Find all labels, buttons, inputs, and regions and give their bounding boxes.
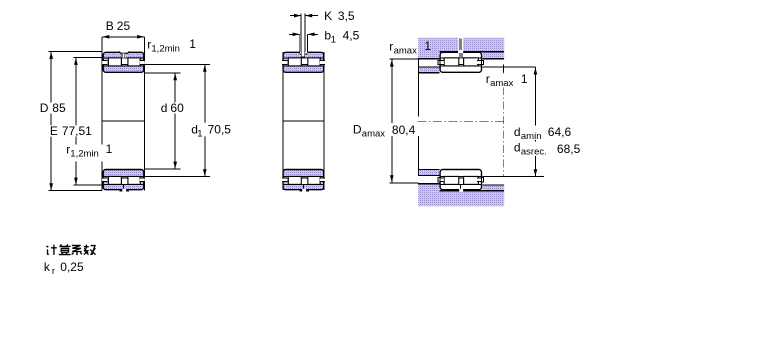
housing shoulder line bottom-left [418, 183, 439, 185]
bottom oil hole mark [122, 185, 125, 190]
bottom groove notch [120, 189, 129, 191]
svg-text:d: d [161, 101, 168, 115]
oil hole marks [121, 53, 125, 57]
svg-text:r: r [389, 40, 393, 54]
roller top-right [308, 58, 320, 66]
bearing face tabs [438, 60, 440, 64]
svg-text:1: 1 [197, 128, 202, 139]
dimension E 77,51 [73, 57, 102, 59]
svg-text:60: 60 [170, 101, 184, 115]
bottom oil hole mark [459, 185, 462, 190]
svg-text:4,5: 4,5 [343, 29, 360, 43]
svg-text:1: 1 [424, 39, 431, 53]
svg-text:1,2min: 1,2min [151, 43, 180, 54]
left drawing silhouette line left [101, 37, 103, 191]
left drawing top section ring cross-section [103, 52, 144, 72]
svg-text:1: 1 [106, 142, 113, 156]
middle drawing top section ring cross-section [283, 52, 324, 72]
roller top-right [464, 58, 479, 66]
dimension B 25 [102, 36, 144, 38]
annular groove slot [300, 51, 307, 54]
groove lines (b1) [299, 34, 301, 52]
svg-text:asrec.: asrec. [521, 147, 547, 158]
housing shoulder line top-right [482, 58, 504, 60]
extension line right [502, 64, 504, 72]
left drawing bottom section ring cross-section [103, 170, 144, 190]
ring gap bottom-left [282, 178, 287, 181]
svg-text:r: r [52, 266, 55, 277]
left drawing centerline [102, 120, 145, 122]
roller top-left [444, 58, 459, 66]
dimension K 3,5 [290, 15, 301, 17]
middle drawing silhouette line left [282, 52, 284, 190]
svg-text:d: d [514, 125, 521, 139]
ring gap bottom-right [320, 178, 325, 181]
svg-text:77,51: 77,51 [62, 124, 92, 138]
dimension d1 70,5 [145, 64, 210, 66]
svg-text:K: K [324, 9, 332, 23]
svg-text:1: 1 [331, 35, 336, 46]
roller top-left [108, 58, 121, 66]
svg-text:amax: amax [490, 78, 513, 89]
label d asrec. 68,5 [513, 142, 581, 157]
svg-text:80,4: 80,4 [392, 123, 416, 137]
ring gap bottom-left [439, 178, 444, 181]
label d amin 64,6 [513, 126, 573, 141]
bottom oil hole mark [302, 185, 305, 190]
housing shoulder line top-left [418, 58, 439, 60]
ring gap left [439, 61, 444, 64]
dimension ra max / Da max (left) [390, 58, 419, 60]
groove + oil hole slot [458, 51, 463, 54]
housing top block [418, 38, 504, 59]
svg-text:25: 25 [117, 19, 131, 33]
right drawing bearing top section ring cross-section [440, 52, 481, 72]
label calculation factors (CJK) [46, 244, 95, 255]
dimension b1 4,5 [289, 33, 300, 35]
svg-text:r: r [486, 72, 490, 86]
svg-text:1,2min: 1,2min [70, 149, 99, 160]
svg-text:3,5: 3,5 [338, 9, 355, 23]
bottom groove notch [457, 189, 466, 191]
roller top-right [128, 58, 140, 66]
housing bore line top [439, 51, 504, 53]
svg-text:1: 1 [189, 37, 196, 51]
dimension d amin / d asrec [482, 66, 535, 68]
shaft shoulder bottom-left [419, 170, 439, 176]
ring gap bottom-right [140, 178, 145, 181]
bottom groove notch [300, 189, 309, 191]
ring gap left [282, 61, 287, 64]
roller bottom-left [108, 176, 121, 184]
housing shoulder line bottom-right [482, 184, 504, 186]
left drawing silhouette line right [143, 37, 145, 191]
dimension D 85 [49, 51, 102, 53]
housing bottom block [418, 184, 504, 207]
svg-text:amax: amax [362, 128, 385, 139]
middle drawing bottom section ring cross-section [283, 170, 324, 190]
ring gap bottom-right [478, 178, 483, 181]
dimension d 60 [145, 72, 181, 74]
roller bottom-right [464, 176, 479, 184]
shaft shoulder face line [418, 59, 420, 117]
ring gap left [102, 61, 107, 64]
svg-text:1: 1 [521, 72, 528, 86]
label r1,2min 1 (bottom) [65, 145, 111, 162]
ring gap bottom-left [102, 178, 107, 181]
svg-text:k: k [44, 260, 51, 274]
svg-text:amin: amin [521, 131, 542, 142]
middle drawing centerline [282, 120, 324, 122]
middle drawing silhouette line right [323, 52, 325, 190]
housing bore line bottom [439, 190, 504, 192]
roller bottom-right [128, 176, 140, 184]
svg-text:70,5: 70,5 [208, 122, 232, 136]
label r amax 1 (right) [485, 74, 529, 88]
svg-text:D: D [353, 122, 362, 136]
svg-text:d: d [514, 141, 521, 155]
oil hole marks [459, 53, 463, 58]
roller bottom-left [288, 176, 301, 184]
oil hole lines (K) [300, 13, 302, 51]
lubrication groove dip [119, 51, 130, 53]
axis centerline [418, 120, 506, 122]
svg-text:0,25: 0,25 [60, 260, 84, 274]
roller bottom-right [308, 176, 320, 184]
ring gap right [140, 61, 145, 64]
svg-text:amax: amax [394, 46, 417, 57]
roller bottom-left [444, 176, 459, 184]
svg-text:D: D [40, 101, 49, 115]
svg-text:B: B [106, 19, 114, 33]
right drawing bearing bottom section ring cross-section [440, 170, 481, 190]
roller top-left [288, 58, 301, 66]
svg-text:85: 85 [52, 101, 66, 115]
svg-text:68,5: 68,5 [557, 142, 581, 156]
ring gap right [320, 61, 325, 64]
oil hole through housing [458, 37, 463, 54]
svg-text:E: E [50, 124, 58, 138]
shaft shoulder top-left [419, 67, 439, 73]
svg-text:64,6: 64,6 [548, 125, 572, 139]
ring gap right [478, 61, 483, 64]
